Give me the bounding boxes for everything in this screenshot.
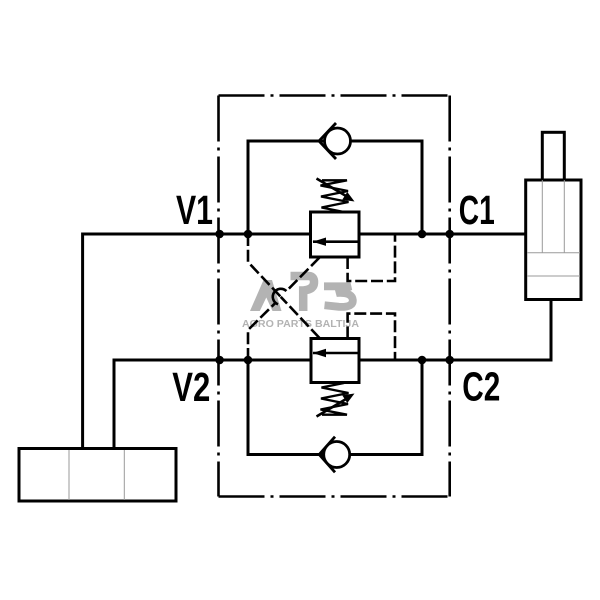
counterbalance valve element CB2 — [311, 339, 359, 383]
junction dot C1 loop — [418, 230, 427, 239]
wire V1 port line to manifold block — [83, 234, 311, 449]
cylinder piston internals — [527, 180, 580, 276]
wire C1 port line to cylinder — [359, 233, 526, 236]
crossover hop arc — [273, 289, 287, 304]
valve assembly enclosure (dash-dot boundary) top edge — [219, 94, 450, 97]
wire check valve CV1 bypass loop — [248, 141, 422, 234]
watermark logo AP3 — [250, 276, 353, 311]
svg-text:C2: C2 — [462, 364, 500, 410]
junction dot C2 port — [445, 356, 454, 365]
junction dot C2 loop — [418, 356, 427, 365]
junction dot V2 port — [215, 356, 224, 365]
manifold block dividers — [69, 450, 124, 500]
valve assembly enclosure bottom edge — [219, 495, 450, 498]
valve assembly enclosure right edge — [448, 96, 451, 497]
adjustment arrow of CB2 spring — [317, 394, 355, 417]
wire check valve CV2 bypass loop — [248, 360, 422, 455]
check valve CV1 — [319, 123, 351, 159]
drain pilot line CB1 to C1 (dashed) — [348, 234, 395, 281]
junction dot V1 port — [215, 230, 224, 239]
svg-text:V2: V2 — [172, 364, 210, 410]
drain pilot line CB2 to C2 (dashed) — [348, 314, 395, 360]
wire V2 port line to manifold block — [114, 360, 311, 449]
manifold block — [19, 449, 176, 502]
svg-text:C1: C1 — [459, 187, 495, 233]
pilot line V1 to CB2 upper half (dashed) — [248, 234, 281, 297]
spring of CB2 — [321, 383, 349, 415]
junction dot C1 port — [445, 230, 454, 239]
wire C2 port line to cylinder bottom — [359, 300, 551, 361]
pilot line V2 to CB1 upper half (dashed) — [286, 258, 319, 292]
junction dot V1 loop — [244, 230, 253, 239]
cylinder body — [526, 180, 581, 300]
valve assembly enclosure left edge — [217, 96, 220, 497]
adjustment arrow of CB1 spring — [317, 179, 355, 202]
pilot line V1 to CB2 lower half (dashed) — [281, 297, 320, 338]
cylinder rod — [542, 132, 564, 180]
pilot line V2 to CB1 lower half (dashed) — [248, 302, 276, 360]
junction dot V2 loop — [244, 356, 253, 365]
svg-text:V1: V1 — [176, 187, 213, 233]
check valve CV2 — [319, 437, 350, 473]
spring of CB1 — [321, 180, 349, 212]
counterbalance valve element CB1 — [311, 212, 360, 257]
